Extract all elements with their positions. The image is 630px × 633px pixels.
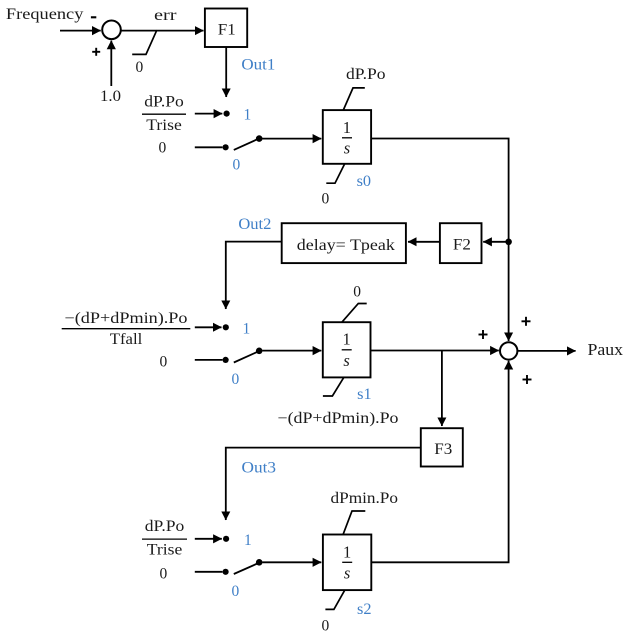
- label Frequency: [6, 6, 84, 23]
- integrator s1: [323, 322, 371, 377]
- label 0 constant (row 2): [160, 354, 168, 371]
- saturation slash on err wire: [132, 30, 157, 54]
- block F1: [205, 9, 247, 48]
- wire s0 output to main trunk: [371, 139, 509, 342]
- label 1.0: [100, 88, 121, 105]
- wire trunk to F2: [483, 241, 506, 243]
- wire fraction into switch3 input 1: [195, 538, 222, 540]
- svg-text:F1: F1: [218, 22, 236, 39]
- svg-text:0: 0: [322, 191, 330, 208]
- wire branch down to F3: [441, 351, 443, 427]
- node switch1 output dot: [256, 135, 263, 142]
- svg-text:0: 0: [232, 371, 240, 388]
- label 1 (switch2 input): [243, 321, 251, 338]
- node switch2 output dot: [256, 348, 263, 355]
- svg-text:s0: s0: [357, 173, 372, 190]
- label dPmin.Po upper limit s2: [331, 490, 399, 507]
- svg-text:Tfall: Tfall: [110, 331, 143, 348]
- node switch1 input-0 dot: [223, 144, 229, 150]
- wire F3 output down to switch3 input 1 (Out3): [226, 448, 421, 520]
- wire s2 output up to main summing junction: [371, 361, 508, 563]
- svg-text:F2: F2: [453, 236, 471, 253]
- svg-text:s: s: [344, 139, 350, 158]
- plus sign left input: [479, 330, 488, 339]
- node switch2 input-1 dot: [223, 324, 229, 330]
- saturation upper slash s0: [343, 88, 365, 110]
- saturation upper slash s2: [343, 511, 365, 534]
- label Out2: [238, 216, 271, 233]
- svg-text:err: err: [154, 7, 178, 24]
- wire delay output down to switch2 input 1 (Out2): [226, 242, 282, 309]
- label dP.Po upper limit s0: [346, 66, 386, 83]
- svg-text:Paux: Paux: [588, 340, 624, 359]
- label 0 lower limit of err: [136, 59, 144, 76]
- block F3: [421, 428, 463, 466]
- label fraction -(dP+dPmin).Po over Tfall (row 2): [62, 310, 191, 348]
- integrator s2: [323, 535, 371, 591]
- switch3 arm: [234, 563, 259, 574]
- switch1 arm: [234, 139, 259, 150]
- svg-text:−(dP+dPmin).Po: −(dP+dPmin).Po: [65, 310, 188, 327]
- svg-text:1: 1: [244, 107, 252, 124]
- label 0 (switch1 selector): [233, 157, 241, 174]
- switch2 arm: [234, 351, 259, 362]
- label s0: [357, 173, 372, 190]
- wire Frequency input into summing junction: [60, 30, 101, 32]
- svg-text:0: 0: [322, 618, 330, 633]
- svg-text:dP.Po: dP.Po: [145, 518, 185, 535]
- label 1 (switch3 input): [244, 532, 252, 549]
- svg-text:Out1: Out1: [241, 56, 275, 73]
- saturation lower slash s2: [325, 590, 344, 609]
- wire dP.Po/Trise into switch1 input 1: [195, 113, 223, 115]
- label 0 (switch2 selector): [232, 371, 240, 388]
- svg-text:Out2: Out2: [238, 216, 271, 233]
- svg-text:1: 1: [343, 543, 351, 562]
- svg-text:delay= Tpeak: delay= Tpeak: [297, 236, 396, 254]
- saturation lower slash s1: [323, 377, 344, 396]
- plus sign at summing junction: [92, 48, 100, 56]
- svg-text:F3: F3: [434, 441, 452, 458]
- svg-text:1: 1: [343, 118, 351, 137]
- label Out3: [242, 460, 277, 477]
- svg-text:0: 0: [232, 583, 240, 600]
- block delay= Tpeak: [282, 223, 406, 263]
- node switch3 output dot: [256, 559, 263, 566]
- wire switch1 to integrator s0: [262, 138, 321, 140]
- wire F1 output down to switch input 1: [225, 48, 227, 98]
- svg-text:0: 0: [136, 59, 144, 76]
- label s2: [357, 601, 372, 618]
- svg-text:s: s: [344, 563, 350, 582]
- label 0 upper limit s1: [353, 284, 361, 301]
- wire fraction into switch2 input 1: [195, 326, 222, 328]
- integrator s0: [323, 110, 371, 164]
- label 1 (switch1 input): [244, 107, 252, 124]
- wire 1.0 constant up into summing junction: [110, 41, 112, 86]
- wire switch3 to integrator s2: [262, 561, 321, 563]
- summing junction S1 (top): [102, 21, 121, 40]
- svg-text:Trise: Trise: [147, 542, 183, 559]
- svg-text:dPmin.Po: dPmin.Po: [331, 490, 399, 507]
- node switch3 input-0 dot: [223, 569, 229, 575]
- svg-text:Trise: Trise: [146, 117, 182, 134]
- label 0 constant (row 3): [160, 566, 168, 583]
- svg-text:1: 1: [244, 532, 252, 549]
- label fraction dP.Po over Trise (row 3): [142, 518, 187, 559]
- block F2: [440, 223, 482, 263]
- svg-text:−(dP+dPmin).Po: −(dP+dPmin).Po: [278, 410, 399, 427]
- label Out1: [241, 56, 275, 73]
- label -(dP+dPmin).Po lower limit s1: [278, 410, 399, 427]
- node switch2 input-0 dot: [223, 357, 229, 363]
- node switch1 input-1 dot: [224, 111, 230, 117]
- svg-text:dP.Po: dP.Po: [144, 94, 184, 111]
- saturation lower slash s0: [326, 164, 344, 183]
- node err label: [154, 7, 178, 24]
- svg-text:Out3: Out3: [242, 460, 277, 477]
- plus sign bottom input: [523, 375, 532, 384]
- minus sign at summing junction: [91, 16, 96, 18]
- svg-text:0: 0: [233, 157, 241, 174]
- label fraction dP.Po over Trise (row 1): [142, 94, 186, 135]
- wire err: summing junction to F1: [121, 30, 203, 32]
- label Paux: [588, 340, 624, 359]
- wire 0 constant into switch1 input 0: [195, 146, 223, 148]
- plus sign top input: [522, 317, 531, 326]
- svg-text:0: 0: [160, 566, 168, 583]
- svg-text:0: 0: [159, 140, 167, 157]
- saturation upper slash s1: [342, 304, 367, 323]
- svg-text:0: 0: [353, 284, 361, 301]
- node junction dot trunk to F2: [505, 239, 512, 246]
- label 0 lower limit s0: [322, 191, 330, 208]
- wire s1 output to main summing junction: [371, 350, 499, 352]
- svg-text:1: 1: [342, 330, 350, 349]
- svg-text:0: 0: [160, 354, 168, 371]
- svg-text:s2: s2: [357, 601, 372, 618]
- label 0 lower limit s2: [322, 618, 330, 633]
- label s1: [357, 386, 372, 403]
- wire switch2 to integrator s1: [262, 350, 321, 352]
- svg-text:Frequency: Frequency: [6, 6, 84, 23]
- wire 0 constant into switch3 input 0: [195, 571, 223, 573]
- summing junction S2 (main, Paux): [500, 342, 517, 359]
- wire F2 to delay block: [408, 241, 440, 243]
- wire 0 constant into switch2 input 0: [195, 359, 223, 361]
- node switch3 input-1 dot: [223, 536, 229, 542]
- svg-text:1.0: 1.0: [100, 88, 121, 105]
- svg-text:s1: s1: [357, 386, 372, 403]
- label 0 (switch3 selector): [232, 583, 240, 600]
- label 0 constant (row 1): [159, 140, 167, 157]
- svg-text:dP.Po: dP.Po: [346, 66, 386, 83]
- svg-text:s: s: [343, 351, 349, 370]
- wire Paux output: [518, 350, 576, 352]
- svg-text:1: 1: [243, 321, 251, 338]
